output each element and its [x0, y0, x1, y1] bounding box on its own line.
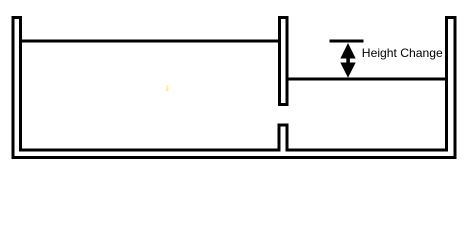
partition upper segment right line	[286, 16, 289, 106]
partition upper segment left line	[278, 16, 281, 106]
partition upper segment bottom cap	[278, 103, 289, 106]
svg-text:Height Change: Height Change	[362, 46, 443, 60]
partition upper segment top cap	[278, 16, 289, 19]
partition lower stub top cap	[278, 124, 289, 127]
tank floor inner line right segment	[286, 149, 449, 152]
tank right wall inner line	[445, 16, 448, 152]
tank left wall top cap	[12, 16, 23, 19]
tank floor outer line	[12, 156, 457, 159]
height change arrow shaft	[346, 58, 350, 63]
height change arrow bottom head	[340, 63, 355, 78]
tank left wall outer line	[12, 16, 15, 159]
tank floor inner line left segment	[19, 149, 280, 152]
tank left wall inner line	[19, 16, 22, 152]
right compartment water level line	[289, 78, 446, 81]
tank right wall outer line	[454, 16, 457, 159]
left compartment water level line	[22, 40, 278, 43]
height change arrow top head	[340, 43, 355, 59]
original level reference bar	[330, 40, 364, 43]
partition lower stub left line	[278, 124, 281, 152]
stray yellow mark	[166, 86, 169, 88]
tank right wall top cap	[445, 16, 457, 19]
partition lower stub right line	[286, 124, 289, 152]
